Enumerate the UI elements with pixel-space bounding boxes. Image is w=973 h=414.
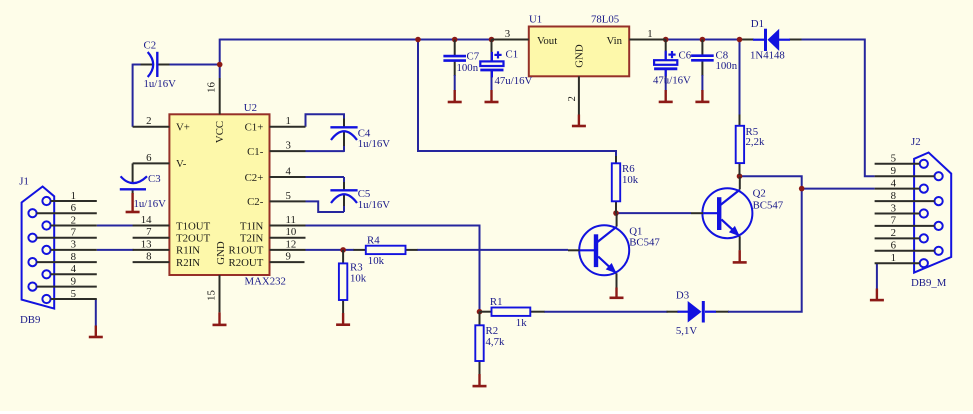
svg-text:9: 9 (71, 275, 76, 287)
wire J1 pin3 to R1IN (97, 249, 134, 251)
svg-text:5: 5 (286, 190, 291, 202)
U1 pin 1 number (647, 28, 652, 40)
junction rail/C1 (489, 37, 495, 43)
junction rail/C7 (452, 37, 458, 43)
ground below C6 (659, 90, 673, 102)
svg-text:4: 4 (286, 165, 292, 177)
C2 designator (144, 39, 157, 51)
svg-text:GND: GND (215, 241, 227, 265)
U2 value MAX232 (245, 275, 286, 287)
J2 pin lines (875, 164, 935, 263)
svg-text:T2IN: T2IN (240, 233, 264, 245)
wire R5 bottom to Q2 collector node (739, 175, 741, 177)
sheet bottom edge (0, 411, 973, 414)
C3 designator (148, 173, 161, 185)
op-amp U2 MAX232 body (169, 114, 269, 275)
U2 designator (244, 102, 257, 114)
wire Q2 collector node to J2 pin 4 (740, 176, 875, 188)
wire R6 bottom to Q1 collector and Q2 base (616, 212, 691, 214)
junction rail/R5 (737, 37, 743, 43)
transistor Q2 BC547 (691, 177, 752, 251)
svg-text:4: 4 (71, 263, 77, 275)
svg-text:11: 11 (286, 214, 296, 226)
svg-text:Vin: Vin (606, 35, 622, 47)
ground below C8 (695, 90, 709, 102)
svg-text:9: 9 (891, 165, 896, 177)
svg-text:2: 2 (146, 115, 151, 127)
svg-text:12: 12 (286, 238, 297, 250)
svg-text:T2OUT: T2OUT (176, 233, 211, 245)
svg-text:2: 2 (566, 96, 578, 101)
svg-text:2,2k: 2,2k (746, 136, 765, 148)
U1 pin 1 Vin (629, 39, 666, 41)
svg-text:J1: J1 (19, 175, 29, 187)
U1 Vin pin name (606, 35, 622, 47)
U2 right pin numbers (286, 115, 297, 262)
svg-text:1u/16V: 1u/16V (358, 138, 391, 150)
svg-text:DB9: DB9 (20, 314, 40, 326)
svg-text:1k: 1k (516, 317, 527, 329)
ground below C7 (448, 90, 462, 102)
R6 value 10k (622, 174, 639, 186)
U1 Vout pin name (537, 35, 557, 47)
R6 designator (622, 163, 635, 175)
svg-text:2: 2 (71, 214, 76, 226)
ground below C1 (485, 90, 499, 102)
U1 GND pin 2 bottom (578, 76, 580, 114)
U2 pin 15 number (205, 290, 217, 301)
svg-text:100n: 100n (457, 62, 479, 74)
capacitor C3 (120, 163, 147, 194)
svg-text:8: 8 (146, 251, 151, 263)
C1 value 47u/16V (495, 75, 533, 87)
transistor Q1 BC547 (568, 214, 629, 288)
svg-text:4: 4 (891, 177, 897, 189)
svg-text:5,1V: 5,1V (676, 325, 697, 337)
svg-text:3: 3 (71, 239, 76, 251)
svg-text:R1OUT: R1OUT (229, 245, 264, 257)
U2 VCC pin name (214, 121, 226, 143)
capacitor C2 (141, 52, 170, 77)
svg-text:R2OUT: R2OUT (229, 257, 264, 269)
regulator U1 78L05 body (529, 27, 629, 77)
svg-text:9: 9 (286, 251, 291, 263)
ground below R3 (336, 313, 350, 325)
wire J1 pin2 to T1OUT (97, 225, 134, 227)
svg-text:Q2: Q2 (753, 188, 766, 200)
capacitor C8 (691, 40, 714, 92)
svg-text:78L05: 78L05 (591, 13, 619, 25)
svg-text:R2IN: R2IN (176, 257, 200, 269)
ground below C3 (126, 193, 140, 212)
svg-text:5: 5 (891, 153, 896, 165)
svg-text:BC547: BC547 (629, 237, 660, 249)
J2 pin numbers (891, 153, 897, 264)
C8 value 100n (716, 60, 738, 72)
svg-text:8: 8 (891, 190, 896, 202)
U2 pin 16 number (205, 82, 217, 93)
Q2 designator (753, 188, 766, 200)
D3 designator (676, 289, 689, 301)
diode D1 1N4148 (753, 29, 790, 51)
R4 value 10k (368, 255, 385, 267)
svg-text:C2+: C2+ (245, 172, 264, 184)
J1 pin circles (28, 197, 50, 303)
resistor R6 (612, 156, 620, 214)
capacitor C5 (330, 190, 357, 203)
U1 value 78L05 (591, 13, 619, 25)
junction R6/Q1 collector (613, 210, 619, 216)
U1 designator (529, 13, 542, 25)
R5 value 2,2k (746, 136, 765, 148)
junction C2/VCC (217, 62, 223, 68)
svg-text:C6: C6 (679, 49, 692, 61)
svg-text:C3: C3 (148, 173, 161, 185)
svg-text:C7: C7 (467, 51, 480, 63)
C5 value 1u/16V (358, 199, 391, 211)
wire C2 right plate to VCC pin junction (169, 64, 219, 66)
U2 right pins (270, 127, 306, 262)
U2 left pin numbers (141, 115, 152, 262)
R2 value 4,7k (486, 336, 505, 348)
svg-text:1: 1 (647, 28, 652, 40)
svg-text:6: 6 (146, 152, 152, 164)
svg-text:1N4148: 1N4148 (750, 50, 785, 62)
U1 pin 3 Vout (492, 39, 529, 41)
svg-text:10k: 10k (622, 174, 639, 186)
C7 value 100n (457, 62, 479, 74)
junction R5/Q2 collector (737, 173, 743, 179)
capacitor C1 (480, 40, 503, 92)
svg-text:1u/16V: 1u/16V (134, 198, 167, 210)
svg-text:U2: U2 (244, 102, 257, 114)
R2 designator (486, 325, 499, 337)
U2 left pin names (176, 122, 211, 269)
D3 value 5,1V (676, 325, 697, 337)
C7 designator (467, 51, 480, 63)
U2 left pins (133, 127, 170, 262)
R3 designator (350, 261, 363, 273)
U2 right pin names (229, 122, 264, 269)
svg-text:5: 5 (71, 288, 76, 300)
svg-text:D1: D1 (751, 18, 764, 30)
svg-text:J2: J2 (911, 136, 921, 148)
svg-text:1: 1 (286, 115, 291, 127)
J2 value DB9_M (911, 277, 947, 289)
ground below U2 pin 15 (213, 312, 227, 325)
wire J2 pin1 to ground (876, 263, 878, 288)
svg-text:VCC: VCC (214, 121, 226, 143)
resistor R5 (736, 115, 744, 176)
svg-text:C1: C1 (506, 49, 519, 61)
ground below R2 (473, 374, 487, 386)
connector J1 DB9 shell (22, 187, 55, 309)
svg-text:R1: R1 (490, 296, 503, 308)
svg-text:R1IN: R1IN (176, 245, 200, 257)
svg-text:1u/16V: 1u/16V (144, 78, 177, 90)
wire VCC rail down to R6 (418, 40, 616, 157)
junction R1/R2/T1IN node (477, 309, 483, 315)
svg-text:C2-: C2- (247, 196, 264, 208)
svg-text:MAX232: MAX232 (245, 275, 286, 287)
svg-text:V+: V+ (176, 122, 190, 134)
svg-text:7: 7 (71, 227, 77, 239)
C4 designator (358, 127, 371, 139)
connector J2 DB9_M shell (914, 153, 951, 273)
wire C1- pin3 to C4 bottom (306, 132, 345, 152)
wire rail down to R5 (739, 40, 741, 115)
U2 VCC pin 16 top (219, 78, 221, 114)
C6 value 47u/16V (653, 74, 691, 86)
svg-text:V-: V- (176, 158, 187, 170)
U2 GND pin 15 bottom (219, 275, 221, 312)
junction rail/C8 (700, 37, 706, 43)
svg-text:3: 3 (891, 202, 896, 214)
svg-text:T1IN: T1IN (240, 220, 264, 232)
J1 designator (19, 175, 29, 187)
svg-text:13: 13 (141, 238, 152, 250)
D1 designator (751, 18, 764, 30)
wire R1 to D3 anode (544, 311, 679, 313)
resistor R1 (480, 308, 545, 316)
svg-text:3: 3 (286, 140, 291, 152)
wire C2 left plate down to V+ pin 2 (133, 64, 141, 127)
ground below Q2 (733, 250, 747, 262)
J1 pin numbers (71, 190, 77, 300)
svg-text:8: 8 (71, 251, 76, 263)
svg-text:Vout: Vout (537, 35, 557, 47)
wire R1OUT pin12 to R4 and Q1 base (306, 249, 569, 251)
svg-text:47u/16V: 47u/16V (495, 75, 533, 87)
svg-text:10k: 10k (368, 255, 385, 267)
svg-text:10k: 10k (350, 272, 367, 284)
C6 designator (679, 49, 692, 61)
svg-text:1: 1 (891, 252, 896, 264)
U1 pin 2 number (566, 96, 578, 101)
svg-text:C1-: C1- (247, 146, 264, 158)
wire T1IN pin11 to R1/R2 node (306, 226, 480, 312)
svg-text:1: 1 (71, 190, 76, 202)
R3 value 10k (350, 272, 367, 284)
J1 pin lines (37, 201, 97, 299)
U2 GND pin name (215, 241, 227, 265)
wire D1 anode to corner down to J2 pin 9 (789, 40, 875, 177)
R1 designator (490, 296, 503, 308)
wire C2- pin5 jog to C5 bottom (306, 195, 345, 213)
diode D3 zener 5,1V (678, 301, 717, 323)
svg-text:6: 6 (891, 240, 897, 252)
svg-text:C2: C2 (144, 39, 157, 51)
C3 value 1u/16V (134, 198, 167, 210)
junction rail/R6 feed (415, 37, 421, 43)
J1 value DB9 (20, 314, 40, 326)
svg-text:R4: R4 (367, 235, 380, 247)
junction R3/pin12 wire (340, 247, 346, 253)
svg-text:BC547: BC547 (753, 199, 784, 211)
svg-text:DB9_M: DB9_M (911, 277, 947, 289)
svg-text:7: 7 (146, 226, 152, 238)
svg-text:100n: 100n (716, 60, 738, 72)
C5 designator (358, 188, 371, 200)
Q1 designator (629, 225, 642, 237)
svg-text:2: 2 (891, 227, 896, 239)
C8 designator (716, 49, 729, 61)
ground below J2 pin 1 (870, 289, 884, 301)
svg-text:6: 6 (71, 202, 77, 214)
svg-text:GND: GND (574, 44, 586, 68)
svg-text:T1OUT: T1OUT (176, 220, 211, 232)
ground below U1 pin 2 (572, 115, 586, 127)
capacitor C4 (330, 127, 357, 140)
Q1 value BC547 (629, 237, 660, 249)
ground below Q1 (610, 288, 624, 298)
ground below J1 pin 5 (89, 326, 103, 338)
svg-text:1u/16V: 1u/16V (358, 199, 391, 211)
wire C2+ pin4 to C5 top (306, 177, 345, 190)
wire D3 cathode up to J2 pin4 node (716, 190, 802, 312)
capacitor C6 (654, 40, 677, 92)
svg-text:15: 15 (205, 290, 217, 301)
svg-text:16: 16 (205, 82, 217, 93)
R4 designator (367, 235, 380, 247)
resistor R4 (354, 246, 418, 254)
svg-text:10: 10 (286, 226, 297, 238)
svg-text:U1: U1 (529, 13, 542, 25)
svg-text:47u/16V: 47u/16V (653, 74, 691, 86)
U1 GND pin name (574, 44, 586, 68)
svg-text:7: 7 (891, 215, 897, 227)
D1 value 1N4148 (750, 50, 785, 62)
U1 pin 3 number (505, 28, 510, 40)
C4 value 1u/16V (358, 138, 391, 150)
junction rail/C6 (663, 37, 669, 43)
capacitor C7 (443, 40, 466, 92)
Q2 value BC547 (753, 199, 784, 211)
wire C1+ pin1 jog to C4 top (306, 114, 345, 127)
svg-text:D3: D3 (676, 289, 689, 301)
resistor R2 (475, 312, 483, 374)
wire VCC rail from MAX232 to 78L05 Vout (220, 39, 492, 78)
J2 designator (911, 136, 921, 148)
wire 78L05 Vin to D1 cathode rail (666, 39, 754, 41)
R5 designator (746, 126, 759, 138)
J2 pin circles (920, 160, 943, 268)
svg-text:C1+: C1+ (245, 122, 264, 134)
wire J1 pin5 to ground (95, 299, 97, 326)
junction J2 pin4 node (799, 186, 805, 192)
C2 value 1u/16V (144, 78, 177, 90)
svg-text:14: 14 (141, 214, 152, 226)
svg-text:3: 3 (505, 28, 510, 40)
svg-text:Q1: Q1 (629, 225, 642, 237)
C1 designator (506, 49, 519, 61)
resistor R3 (339, 250, 347, 313)
svg-text:4,7k: 4,7k (486, 336, 505, 348)
R1 value 1k (516, 317, 527, 329)
